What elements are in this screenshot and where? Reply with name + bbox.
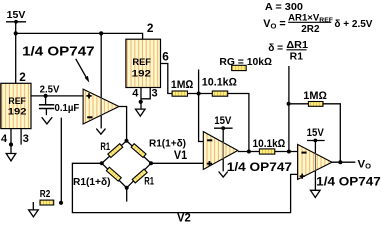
wire R4 to U2 output [228,94,249,152]
svg-text:2: 2 [147,21,154,35]
node U2 output [247,150,251,154]
ground R2 [29,210,39,217]
svg-text:V1: V1 [174,149,188,162]
svg-text:R1: R1 [290,51,304,62]
svg-text:V2: V2 [177,212,191,225]
wire 15V down to REF1 pin2 [15,22,17,84]
svg-text:δ =: δ = [268,43,283,54]
wire U1 inverting feedback from R2 node [60,118,62,203]
svg-text:1/4 OP747: 1/4 OP747 [22,45,95,59]
wire 15V rail to REF2 pin2 [16,33,143,39]
svg-text:REF: REF [8,96,26,107]
wire V2 rail: bridge left to U3 non-inverting input [72,163,297,212]
node REF1 pin4 [9,142,13,146]
REF2 pin4 wire [140,88,142,109]
equation Vo [263,12,372,35]
svg-text:VO: VO [358,158,372,170]
node R2 top [59,201,63,205]
svg-text:15V: 15V [7,10,26,21]
op-amp U1 [83,89,119,124]
wire U2 output [238,151,260,153]
svg-text:4: 4 [1,133,8,145]
svg-text:2.5V: 2.5V [40,84,60,95]
svg-text:2R2: 2R2 [301,24,320,35]
wire U1 supply line [100,33,102,128]
wire R2 to ground [32,202,34,210]
wire U3 supply line [314,141,316,190]
wire V1 bridge right to U2 non-inverting input [151,162,203,164]
wire R3 to node A [188,93,213,95]
wire node B to R6 [289,103,309,105]
svg-text:3: 3 [152,87,158,99]
wire REF1 output 2.5V [31,95,83,97]
svg-text:10.1kΩ: 10.1kΩ [253,138,286,150]
svg-text:R1: R1 [100,141,110,153]
resistor R2 [40,200,54,205]
wire R6 to U3 output [323,104,340,162]
arrow negative supply U1 [96,129,105,135]
node U3 output [338,160,342,164]
svg-text:10.1kΩ: 10.1kΩ [202,76,238,88]
svg-text:1/4 OP747: 1/4 OP747 [227,160,293,174]
svg-text:6: 6 [162,50,169,64]
REF2 pin6 wire [161,64,173,94]
node bridge right [149,161,153,165]
ground REF2 [136,109,146,116]
resistor R6 1M (feedback U3) [308,102,323,107]
15V supply bar U3 [307,139,325,143]
svg-text:δ + 2.5V: δ + 2.5V [334,19,372,30]
resistor R1(1+d) bridge bottom-left [106,167,121,181]
node bridge top [125,139,129,143]
annotation arrow to U1 [76,59,90,83]
node R6 left [287,102,291,106]
node bridge bottom [125,186,129,190]
ground U3 [311,190,321,197]
resistor R1(1+d) bridge top-right [131,144,146,158]
resistor R5 10.1k (U2 out to U3) [259,149,274,154]
RG stub left [198,70,200,94]
node A (U2 summing) [197,92,201,96]
wire bridge bottom stub [126,188,128,202]
svg-text:192: 192 [8,107,27,118]
wire U2 supply line over triangle [222,142,224,159]
svg-text:15V: 15V [214,115,232,127]
node bridge left [100,161,104,165]
ground REF1 [6,154,16,161]
node 2.5V [44,94,48,98]
svg-text:R2: R2 [40,189,51,200]
svg-text:3: 3 [23,133,29,145]
svg-text:192: 192 [132,68,151,79]
resistor R1 bridge bottom-right [132,169,147,183]
node 15V rail junction [14,31,18,35]
svg-text:R1: R1 [144,176,154,188]
wire U3 output Vo [332,161,355,163]
node REF2 pin4 [139,100,143,104]
svg-text:R1(1+δ): R1(1+δ) [73,177,111,188]
wire node A to U2 inverting input [199,94,204,142]
svg-text:0.1µF: 0.1µF [55,103,80,114]
REF2 pin3 wire [141,88,150,99]
RG stub right / wire to R6 [288,66,290,152]
wire R5 to U3 inverting input [275,151,298,153]
svg-text:1MΩ: 1MΩ [303,90,327,102]
svg-text:1/4 OP747: 1/4 OP747 [316,175,381,189]
svg-text:REF: REF [132,57,151,68]
op-amp U3 [298,144,332,179]
node op-amp U1 supply tap [99,31,103,35]
arrow negative supply U2 [219,172,228,178]
bridge wires (diamond) [102,141,151,188]
capacitor C1 0.1uF [39,96,54,115]
equation delta [268,40,308,63]
op-amp U2 [203,132,238,170]
wire U3 supply line over triangle [314,153,316,171]
REF1 pin4 wire [10,129,12,154]
arrow ground C1 [42,117,53,124]
resistor RG 10k (floating glyph) [232,65,247,70]
svg-text:4: 4 [132,87,139,99]
svg-text:1MΩ: 1MΩ [171,79,194,91]
wire U2 supply line [222,128,224,171]
wire U1 output to bridge top [119,107,127,141]
wire U1 supply line over triangle [100,98,102,116]
svg-text:RG = 10kΩ: RG = 10kΩ [219,57,272,68]
REF2 (REF192) box [126,39,161,87]
resistor R3 1M (feedback U2) [172,91,187,96]
REF1 (REF192) box [1,83,31,128]
svg-text:A = 300: A = 300 [265,2,303,13]
15V supply bar (top left) [6,20,26,24]
15V supply bar U2 [214,126,233,130]
node B (U3 summing) [287,150,291,154]
resistor R4 10.1k (feedback U2) [212,91,227,96]
svg-text:15V: 15V [307,127,325,139]
REF1 pin3 wire [20,129,22,145]
svg-text:VO =: VO = [263,18,285,31]
svg-text:2: 2 [19,70,26,84]
resistor R1 bridge top-left [108,144,123,158]
